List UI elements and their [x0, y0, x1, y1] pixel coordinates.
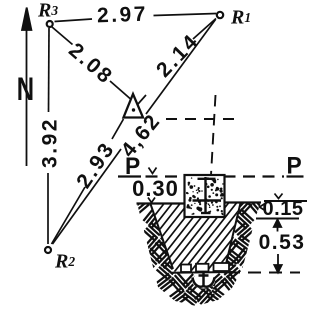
north arrow	[22, 8, 31, 167]
svg-text:P: P	[287, 152, 302, 179]
svg-text:0.53: 0.53	[259, 231, 306, 254]
svg-text:R1: R1	[230, 7, 251, 29]
wire R3-R1 (2.97)	[55, 14, 217, 22]
brick 3	[214, 263, 230, 271]
pit wall left	[151, 204, 174, 269]
brick row base line	[171, 271, 234, 274]
pit backfill hatch	[100, 196, 321, 285]
arrow up	[274, 220, 281, 232]
datum dashes	[146, 175, 285, 177]
wire station-R1 (2.14)	[138, 19, 216, 105]
underground anchor mark	[192, 274, 215, 289]
bolt cross in block	[193, 177, 222, 213]
arrow v on datum	[149, 168, 157, 174]
station triangle	[124, 94, 144, 118]
datum line P-P : P underline left	[118, 175, 141, 177]
wire R2-R1 (4.62)	[53, 20, 216, 245]
P underline right	[287, 175, 304, 177]
svg-text:N: N	[17, 71, 34, 107]
ground line right	[225, 201, 262, 203]
point R1	[217, 12, 223, 18]
svg-text:2.97: 2.97	[97, 3, 149, 28]
wire R2-station (2.93)	[52, 119, 124, 244]
dim line 0.15 upper	[264, 200, 307, 202]
brick 1	[181, 265, 191, 273]
svg-text:0.15: 0.15	[263, 198, 304, 220]
centerline vertical	[211, 95, 216, 175]
brick 2	[196, 264, 209, 272]
wire R3-station (2.08)	[52, 27, 131, 99]
ground line left	[137, 202, 185, 204]
dim line 0.15 lower	[256, 218, 299, 220]
svg-text:R2: R2	[54, 251, 75, 273]
svg-text:0.30: 0.30	[132, 176, 179, 201]
svg-text:3.92: 3.92	[39, 117, 62, 168]
soil band (herringbone)	[130, 196, 267, 307]
point R3	[47, 21, 53, 27]
arrow < left of 0.15	[260, 204, 266, 211]
svg-text:R3: R3	[37, 0, 58, 22]
arrow v above 0.15	[275, 194, 283, 199]
point R2	[45, 247, 51, 253]
wire R3-R2 (3.92)	[48, 28, 49, 244]
arrow v below 0.30	[148, 198, 155, 203]
pit wall right	[226, 203, 241, 266]
dim line bottom dashed	[227, 272, 300, 274]
centerline horizontal	[166, 118, 241, 120]
monument block	[185, 175, 225, 217]
arrow down	[274, 254, 281, 273]
